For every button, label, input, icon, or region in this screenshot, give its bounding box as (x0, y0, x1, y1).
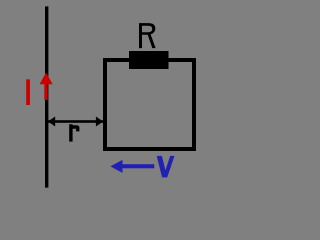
wire (long straight current-carrying wire) (45, 6, 48, 187)
label R (139, 23, 156, 48)
label v (velocity, blue italic) (157, 156, 175, 178)
velocity arrow v (blue, pointing left) (110, 160, 154, 173)
resistor R (black slab on top side of loop) (129, 51, 169, 69)
dimension arrow r (double-headed, wire to loop) (48, 117, 103, 127)
label I (current) (26, 79, 30, 105)
current arrow I (red, pointing up along wire) (40, 73, 53, 101)
label r (distance) (69, 124, 79, 141)
loop (rectangular circuit loop) (105, 60, 194, 149)
